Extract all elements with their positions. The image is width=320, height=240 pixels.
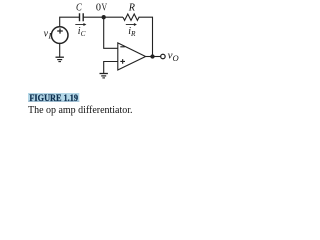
svg-text:0: 0 bbox=[96, 3, 101, 14]
svg-text:C: C bbox=[76, 3, 83, 14]
svg-text:V: V bbox=[102, 3, 108, 14]
svg-text:The op amp differentiator.: The op amp differentiator. bbox=[28, 104, 133, 116]
svg-text:FIGURE 1.19: FIGURE 1.19 bbox=[29, 93, 78, 104]
svg-text:R: R bbox=[128, 3, 136, 14]
